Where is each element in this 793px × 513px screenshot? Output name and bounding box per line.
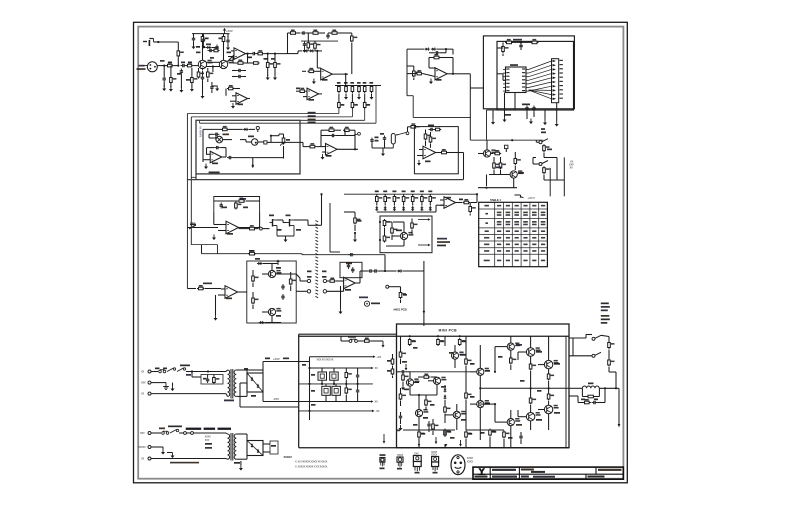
svg-text:X. XX XXXXXX XXXX XX XXXX.: X. XX XXXXXX XXXX XX XXXX. [295, 460, 328, 463]
resistor RM2 ladder2 [351, 101, 354, 109]
resistor R54 top [248, 250, 256, 255]
ground EQ bank [370, 94, 374, 100]
svg-text:X. XXXXX XXXXX X XX XXXXX.: X. XXXXX XXXXX X XX XXXXX. [295, 466, 328, 469]
diode DA2 [444, 395, 447, 400]
op-amp U5 [435, 68, 447, 80]
wire ce4 bot [335, 395, 337, 401]
fuse F2 rail [349, 339, 357, 342]
wire U5 out [447, 73, 455, 75]
connector CN3 pin1 [323, 279, 326, 282]
wire [314, 41, 316, 43]
junction gnd main [252, 164, 254, 166]
wire [172, 383, 174, 386]
label Q17 [485, 403, 490, 405]
wire to T2 [193, 432, 226, 434]
label R96 [387, 360, 391, 362]
pin label L5 [506, 83, 509, 84]
wire IC box entry [470, 87, 483, 89]
label RD5 [411, 191, 415, 193]
transistor Q7 bias [408, 232, 413, 236]
diode D3 [309, 49, 314, 52]
wire U12- [440, 204, 444, 206]
label U6 ref [510, 64, 518, 66]
wire jog g [302, 142, 304, 146]
capacitor C28 [281, 294, 284, 300]
wire rail 0v [299, 383, 373, 385]
wire fb right [245, 62, 254, 64]
pin label R4 [522, 79, 525, 80]
wire bus mid link [191, 176, 196, 178]
resistor R97 amp edge [391, 368, 394, 376]
ground left col [399, 425, 403, 431]
wire to Q1 base [193, 65, 199, 67]
wire +V rail top [192, 33, 230, 35]
power arrow +V table [515, 195, 525, 198]
pin label R2 [522, 72, 525, 73]
label U14 [345, 289, 351, 291]
bridge rectifier BR2 [247, 441, 263, 456]
capacitor C18 [525, 106, 528, 112]
resistor R70 [408, 338, 415, 346]
wire ladder bottom I [377, 211, 436, 213]
wire T1 s2 [236, 395, 247, 397]
resistor R57 [252, 297, 259, 305]
resistor R49 hang [469, 205, 476, 213]
op-amp U11 [226, 221, 239, 234]
wire fb left down [213, 213, 215, 225]
wire down [486, 175, 488, 187]
capacitor C11 output coupling [251, 52, 257, 55]
label Q1 [196, 52, 201, 54]
wire U5 vertical [469, 74, 471, 140]
svg-text:XX: XX [375, 366, 379, 370]
label psu extra 6 [302, 364, 306, 366]
wire U7 out [222, 156, 226, 158]
resistor R32 [543, 166, 550, 174]
box snubber [201, 375, 223, 385]
wire SW1 down link [544, 157, 557, 159]
resistor R72 [458, 338, 465, 346]
wire amp in [397, 371, 401, 373]
capacitor C24b out [227, 156, 233, 159]
svg-text:+XX: +XX [377, 355, 382, 359]
label in extra 5 [210, 57, 214, 59]
pin IC left 3 [503, 76, 506, 78]
wire up to rail [321, 194, 323, 225]
wire L up link [301, 254, 303, 255]
label R6 [219, 38, 223, 40]
wire Q3 base [478, 153, 483, 155]
resistor R93 [608, 359, 615, 367]
wire T1 p1 [226, 370, 228, 372]
label fb extra 2 [243, 207, 248, 209]
wire [300, 141, 303, 143]
label amp extra 2 [449, 352, 454, 354]
wire box in2 [497, 73, 503, 75]
label RD6 [420, 191, 424, 193]
wire U7- [203, 159, 210, 161]
diode DD1 [375, 206, 378, 211]
wire Q11 c [510, 336, 512, 343]
transformer T2 [228, 433, 237, 461]
switch SW9 speaker [592, 352, 601, 357]
bus label [308, 122, 316, 124]
wire Q12 e [530, 356, 532, 364]
wire out down [247, 54, 249, 59]
wire [256, 228, 259, 230]
ground IC area 5 [555, 121, 559, 127]
resistor R56 [252, 275, 259, 283]
wire pill top [283, 134, 285, 137]
power +V K [276, 259, 279, 265]
wire stage3 to midband [412, 96, 414, 118]
op-amp U4 [307, 88, 319, 100]
label Q6 [286, 215, 291, 217]
transistor Q4 protect [518, 170, 523, 174]
capacitor C2 input shunt [163, 76, 166, 82]
wire col 445c [444, 444, 446, 448]
resistor R64 rail [363, 338, 371, 343]
wire IC box drop [486, 110, 488, 140]
capacitor C40 input amp [400, 370, 406, 373]
bus turnup2 [351, 109, 353, 117]
label out 3 [601, 310, 608, 312]
transistor Q9 [276, 308, 281, 312]
connector pad H [260, 227, 263, 230]
node stage2 in [316, 50, 318, 52]
label RL6 [370, 82, 374, 84]
label R54 [249, 250, 255, 252]
bus line1 [187, 113, 339, 115]
capacitor C43 left [399, 414, 402, 420]
capacitor C22 main [214, 136, 220, 139]
capacitor C14 [303, 42, 306, 48]
transistor Q11 driver top [515, 343, 520, 347]
wire t2s1 [236, 433, 247, 435]
resistor R14 divider [266, 61, 273, 69]
wire Q1-Q2 link [207, 61, 220, 63]
label RD1 [375, 191, 379, 193]
wire to gnd drop [616, 387, 619, 389]
resistor R37 in [309, 143, 317, 148]
svg-text:XXXX: XXXX [431, 454, 438, 457]
wire U13- [218, 294, 225, 296]
wire fb to SW3 [344, 130, 346, 135]
resistor R76 [432, 423, 439, 431]
resistor RL2 ladder [345, 85, 348, 93]
diode DA1 [444, 388, 447, 393]
ground U13 [214, 315, 218, 321]
svg-text:XXXXX: XXXXX [284, 455, 293, 459]
wire Q4 emitter [513, 178, 515, 188]
label in [190, 224, 196, 226]
diode D4 [424, 47, 429, 50]
box K transistors [247, 261, 296, 323]
label R85 [421, 433, 425, 435]
label U4 [309, 99, 315, 101]
wire U9- [417, 155, 423, 157]
wire U5- [423, 74, 435, 77]
wire bus bottom link [191, 244, 217, 246]
wire pair link [414, 382, 419, 384]
resistor R71 [437, 338, 444, 346]
wire br2 out1 [263, 443, 270, 445]
capacitor CE1 electrolytic [318, 372, 327, 380]
ground C8 [179, 87, 183, 93]
wire ex neutral [151, 458, 226, 460]
transistor Q2 input pair [229, 60, 234, 64]
node emitters [212, 65, 214, 67]
wire [315, 50, 323, 52]
capacitor C15b feedback [326, 33, 329, 39]
label TO220A bottom [415, 472, 420, 474]
connector XLR1 input [143, 62, 157, 72]
capacitor C16 fb [434, 51, 440, 54]
resistor R43 out [440, 149, 448, 154]
wire rail -v2 [299, 401, 371, 403]
label RD2 [383, 191, 387, 193]
wire fb [214, 200, 238, 202]
resistor RD3 [393, 195, 400, 203]
wire Q10 e down [454, 359, 456, 368]
op-amp U12 [444, 197, 456, 209]
wire [225, 89, 227, 96]
capacitor C21 main [214, 133, 220, 136]
resistor R38 fb [328, 127, 336, 132]
arrow out J top [418, 219, 428, 221]
wire [177, 57, 179, 65]
wire [257, 53, 262, 55]
bus turnup3 [364, 109, 366, 120]
wire box to bus [195, 174, 197, 180]
wire to right stage [264, 53, 285, 55]
resistor R58 [289, 278, 296, 286]
resistor R4 [186, 62, 193, 67]
pin label L3 [506, 76, 509, 77]
svg-text:XXX: XXX [205, 439, 210, 442]
bus label [308, 115, 316, 117]
node U3 out [345, 73, 347, 75]
ground U14 [339, 309, 343, 315]
resistor R27 [494, 150, 502, 155]
capacitor CE3 electrolytic [322, 386, 331, 395]
wire bus down K [201, 245, 203, 254]
label SW1b [541, 128, 545, 130]
resistor R26 [502, 45, 509, 53]
wire U5+ [429, 67, 435, 69]
title cell fil [521, 476, 529, 478]
wire amp bases rail [410, 371, 470, 373]
wire main out right [271, 141, 300, 143]
capacitor C27 [281, 284, 284, 290]
wire T1 ct [240, 382, 247, 384]
op-amp U13 [225, 286, 238, 299]
note see table line2 [437, 241, 450, 243]
label R71 [440, 341, 444, 343]
switch SW5 mains [167, 368, 176, 372]
box J bias select [380, 216, 432, 253]
svg-text:XXX: XXX [414, 453, 419, 456]
wire to T1 [186, 371, 226, 373]
node div2 [274, 53, 276, 55]
wire Q7 c [403, 222, 405, 232]
label in extra 1 [160, 60, 165, 62]
resistor R79 vas [444, 406, 451, 414]
wire ladder top rail [335, 85, 381, 87]
label CE3 [311, 390, 315, 392]
label out 5 [601, 319, 610, 321]
label amp extra 12 [508, 437, 513, 439]
wire L to diode [385, 270, 397, 272]
resistor R13b [252, 62, 260, 65]
box IC section outer [483, 36, 574, 109]
wire right vertical [563, 157, 565, 196]
svg-text:+XXV: +XXV [226, 29, 233, 33]
wire edge3 [392, 376, 394, 378]
ground T2 [239, 465, 243, 471]
wire [262, 228, 269, 230]
wire Q13 base [538, 364, 544, 366]
wire L into amp [423, 312, 425, 326]
wire down right [463, 153, 465, 180]
wire col 419 bot [418, 439, 420, 448]
wire XLR to R3 [157, 65, 166, 67]
wire t2s2 [236, 458, 247, 460]
label amp extra 6 [537, 390, 542, 392]
wire br out top [262, 370, 264, 373]
transistor Q12 output top1 [536, 347, 541, 351]
node U5 out [452, 73, 454, 75]
op-amp U2 servo [236, 93, 248, 105]
table cell texts [484, 205, 546, 261]
resistor RL4 ladder [358, 85, 361, 93]
wire ex live [151, 432, 161, 434]
wire jog [307, 220, 309, 225]
wire Q19 c [456, 404, 458, 411]
label out 6 [601, 322, 608, 324]
power +V arrow [223, 28, 226, 34]
label TO92A bottom [380, 468, 385, 470]
capacitor C15 feedback [301, 31, 307, 34]
resistor R87 [465, 431, 472, 439]
wire T2 p1 [226, 433, 228, 434]
wire U9 out [436, 152, 440, 154]
wire [340, 286, 342, 309]
pin label R5 [522, 83, 525, 84]
resistor R16 servo in [227, 85, 234, 90]
capacitor C10 [210, 85, 213, 91]
label XLR1 [139, 65, 145, 67]
wire zobel up [604, 388, 606, 402]
connector inline 2 [191, 432, 194, 435]
wire fb up [232, 57, 234, 64]
wire Q14 e [409, 386, 411, 395]
pin label L7 [506, 90, 509, 91]
label fb extra 1 [222, 207, 227, 209]
diode DD3 [393, 206, 396, 211]
svg-text:XXX: XXX [140, 432, 145, 435]
label C24c [380, 133, 384, 135]
ground U7 [204, 164, 208, 170]
arrow gnd amp 2 [435, 437, 437, 442]
title cell draw [521, 469, 534, 471]
label R20 [296, 88, 300, 90]
pin label L1 [506, 68, 509, 69]
wire to right [294, 219, 308, 221]
capacitor C36 [356, 388, 359, 394]
bus line4 [200, 122, 376, 124]
wire [203, 128, 221, 130]
wire earth [151, 382, 166, 384]
wire Q21 c down [530, 421, 532, 430]
diode D9 [397, 269, 402, 272]
wire P top [569, 337, 586, 339]
resistor R29 [493, 162, 500, 170]
resistor R73 in gnd [402, 374, 409, 382]
label amp extra 7 [470, 396, 475, 398]
pin label R7 [522, 90, 525, 91]
wire to diodes [407, 48, 424, 50]
wire amp out to L1 [569, 387, 582, 389]
resistor R5 rail [201, 35, 204, 43]
resistor RD7 [429, 195, 436, 203]
diode BR1a [251, 377, 254, 381]
wire Q2 to U1 [227, 55, 234, 62]
switch SW3 [353, 132, 360, 135]
wire [371, 340, 383, 342]
wire Q17 e down [479, 408, 481, 440]
label L1 [588, 383, 594, 385]
capacitor CE2 electrolytic [330, 372, 339, 380]
junction protect gnd [485, 187, 487, 189]
label Q20 [516, 424, 522, 426]
capacitor C4 rail [192, 36, 195, 42]
wire vas spine [479, 375, 481, 400]
wire amp bottom rail [299, 447, 569, 449]
diode DD4 [402, 206, 405, 211]
wire pill down [283, 146, 285, 158]
wire br2 out2 [263, 451, 270, 453]
wire top rail H [344, 193, 477, 195]
capacitor C5 [202, 37, 205, 43]
label -V [402, 361, 407, 363]
connector CN1 strip [552, 59, 559, 103]
label SW1 [541, 132, 546, 134]
wire rail +v2 [310, 367, 371, 369]
wire ce2 bot [333, 380, 335, 384]
wire amp top rail [299, 335, 569, 337]
resistor R83 emitter bot [529, 397, 536, 405]
label U9 [425, 161, 431, 163]
wire left riser long [309, 362, 311, 421]
wire rail -v1 [299, 410, 372, 412]
diode DD5 [411, 206, 414, 211]
capacitor C35 [356, 373, 359, 379]
wire [235, 88, 241, 90]
wire [400, 287, 402, 291]
label Q11 [516, 344, 522, 346]
wire ce3 bot [325, 395, 327, 401]
diode BR1b [257, 384, 260, 388]
pin label R6 [522, 86, 525, 87]
svg-text:XXX XX XXX XX: XXX XX XXX XX [317, 358, 334, 361]
package TO-92 A [380, 458, 385, 467]
wire U8- [322, 151, 326, 153]
logo company [478, 468, 486, 475]
transistor Q19 vas2 [461, 411, 466, 415]
wire jack tip [154, 41, 159, 43]
label Q14 [404, 389, 409, 391]
